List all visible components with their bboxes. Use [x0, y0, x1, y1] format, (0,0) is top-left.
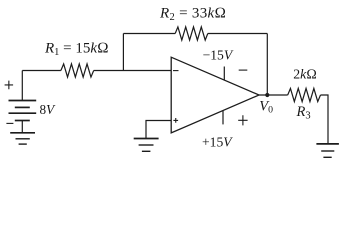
- op-amp U1: [171, 57, 259, 133]
- plus sign battery: [5, 81, 14, 90]
- svg-text:+15V: +15V: [202, 134, 233, 149]
- wire feedback right vertical to output node: [266, 34, 268, 96]
- battery V1 plate short: [15, 106, 30, 108]
- positive supply pin stub: [222, 111, 224, 125]
- wire R1 to op-amp inverting input: [94, 70, 172, 72]
- node V0 junction dot: [265, 93, 269, 97]
- svg-text:R3: R3: [296, 104, 311, 122]
- wire battery top to R1: [22, 70, 61, 72]
- negative supply pin stub: [223, 67, 225, 81]
- plus sign positive supply: [238, 115, 247, 125]
- ground (battery): [10, 133, 35, 144]
- svg-text:R2 = 33kΩ: R2 = 33kΩ: [159, 5, 226, 23]
- wire feedback left vertical: [122, 34, 124, 71]
- wire feedback top right: [208, 33, 267, 35]
- battery V1 plate long top: [9, 100, 37, 102]
- wire feedback top left: [123, 33, 175, 35]
- plus sign non-inverting input: [173, 118, 178, 123]
- svg-text:−15V: −15V: [203, 48, 234, 63]
- resistor R2: [175, 27, 208, 40]
- battery V1 plate long: [9, 112, 37, 114]
- battery V1 plate short bottom: [15, 120, 30, 122]
- minus sign inverting input: [173, 70, 179, 72]
- wire R3 to right ground: [321, 95, 329, 143]
- resistor R3: [288, 88, 321, 101]
- resistor R1: [61, 64, 94, 77]
- svg-text:8V: 8V: [40, 102, 57, 117]
- svg-text:R1 = 15kΩ: R1 = 15kΩ: [44, 41, 109, 59]
- wire battery positive terminal: [21, 71, 23, 101]
- svg-text:2kΩ: 2kΩ: [293, 67, 317, 82]
- wire battery negative to ground: [21, 121, 23, 133]
- svg-text:V0: V0: [259, 98, 273, 115]
- wire non-inverting input to ground: [146, 121, 171, 139]
- minus sign battery: [6, 122, 13, 124]
- wire op-amp output to R3: [259, 94, 288, 96]
- ground (op-amp non-inverting input): [134, 139, 159, 152]
- ground (right, R3): [316, 144, 339, 157]
- minus sign negative supply: [239, 69, 248, 71]
